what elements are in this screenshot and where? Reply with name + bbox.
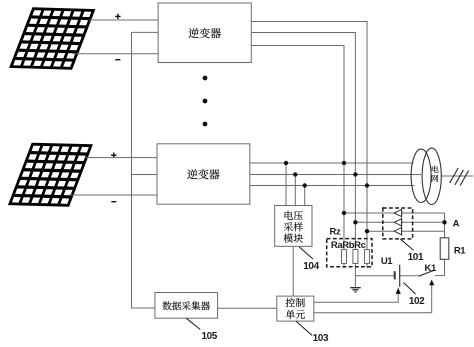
ground symbol bbox=[350, 288, 360, 292]
wire Rb bottom to ground bbox=[354, 264, 356, 288]
wire comm bus vertical to data collector bbox=[132, 32, 155, 308]
diode D2 bbox=[394, 218, 401, 227]
wire diode branch line 3 bbox=[367, 230, 445, 232]
svg-text:K1: K1 bbox=[425, 263, 437, 274]
resistor Ra bbox=[342, 250, 347, 264]
grid winding ellipse left bbox=[411, 149, 431, 202]
svg-text:A: A bbox=[453, 219, 460, 230]
inverter 2 box bbox=[157, 144, 250, 204]
wire Ra bottom stub bbox=[343, 264, 345, 269]
PV panel array 1 (top left solar panel) bbox=[9, 7, 95, 69]
leader line 105 bbox=[186, 318, 200, 329]
wire node A vertical bbox=[444, 213, 446, 238]
label - (PV1 negative) bbox=[115, 59, 120, 61]
inverter 1 box bbox=[158, 3, 251, 63]
wire sampling tap 3 bbox=[304, 186, 306, 206]
wire diode branch line 1 bbox=[344, 212, 445, 214]
junction dot tap2/busB bbox=[293, 172, 297, 176]
resistor R1 bbox=[440, 238, 449, 259]
svg-text:Rz: Rz bbox=[329, 227, 340, 238]
leader line 103 bbox=[296, 321, 312, 335]
diode D3 bbox=[394, 227, 401, 236]
voltage sampling module box 104 bbox=[275, 206, 312, 247]
data collector box 105 bbox=[155, 293, 218, 319]
leader line 104 bbox=[299, 247, 313, 259]
control unit box 103 bbox=[277, 296, 314, 321]
wire ground node to U1 bbox=[355, 275, 394, 277]
wire PV2 - to inverter 2 bbox=[69, 194, 157, 196]
arrow control to U1 bbox=[396, 288, 401, 294]
wire grid to three-phase marker bbox=[441, 175, 473, 177]
wire AC bus phase A bbox=[250, 162, 414, 164]
junction dot inv1B/busB bbox=[353, 172, 357, 176]
wire inverter 1 comm stub bbox=[132, 31, 159, 33]
wire control to K1 bbox=[314, 284, 432, 313]
svg-text:104: 104 bbox=[303, 261, 319, 272]
wire inverter 2 comm stub bbox=[132, 174, 158, 176]
resistor Rb bbox=[353, 250, 358, 264]
junction dot diode line 2 bbox=[353, 220, 357, 224]
svg-text:102: 102 bbox=[409, 296, 425, 307]
wire inverter 1 output phase A (top, bends down at right) bbox=[251, 22, 367, 250]
resistor network dashed box Rz bbox=[327, 239, 372, 267]
svg-text:RaRbRc: RaRbRc bbox=[331, 240, 366, 251]
three-phase slash 3 bbox=[460, 171, 469, 186]
leader line 101 bbox=[400, 239, 413, 250]
wire U1 to K1 left contact bbox=[400, 275, 419, 277]
svg-text:R1: R1 bbox=[454, 246, 466, 257]
leader line 102 bbox=[404, 283, 416, 295]
svg-text:105: 105 bbox=[201, 331, 217, 342]
wire sampling tap 1 bbox=[285, 163, 287, 206]
ellipsis dot 2 bbox=[203, 99, 208, 104]
ellipsis dot 3 bbox=[203, 122, 208, 127]
junction dot tap1/busA bbox=[284, 161, 288, 165]
wire inverter 1 output phase B (middle) bbox=[251, 33, 355, 250]
resistor Rc bbox=[365, 250, 370, 264]
wire sampling tap 2 bbox=[294, 175, 296, 206]
PV panel array 2 (bottom left solar panel) bbox=[8, 143, 93, 207]
wire PV1 + to inverter 1 bbox=[89, 19, 158, 21]
label + (PV1 positive) bbox=[115, 14, 120, 19]
wire Rc bottom stub bbox=[366, 264, 368, 269]
three-phase slash 2 bbox=[455, 170, 463, 185]
wire control to U1 bbox=[314, 294, 398, 303]
diode D1 bbox=[394, 209, 401, 218]
wire diode branch line 2 bbox=[355, 221, 444, 223]
wire K1 right stub bbox=[435, 275, 445, 277]
switch K1 blade bbox=[419, 271, 433, 277]
junction dot inv1A/busA bbox=[342, 161, 346, 165]
wire inverter 1 output phase C (bottom) bbox=[251, 46, 344, 250]
junction dot inv1C/busC bbox=[365, 183, 369, 187]
svg-text:101: 101 bbox=[408, 252, 424, 263]
label - (PV2 negative) bbox=[111, 201, 116, 203]
label grid 电网 bbox=[432, 165, 439, 182]
junction dot tap3/busC bbox=[303, 183, 307, 187]
junction dot diode line 1 bbox=[342, 211, 346, 215]
svg-text:103: 103 bbox=[313, 333, 329, 344]
wire data collector to control unit bbox=[218, 307, 277, 309]
wire PV1 - to inverter 1 bbox=[73, 53, 159, 55]
wire AC bus phase C bbox=[250, 185, 415, 187]
wire R1 bottom to K1 bbox=[444, 259, 446, 275]
diode group dashed box 101 bbox=[383, 208, 413, 239]
label + (PV2 positive) bbox=[111, 153, 116, 158]
ellipsis dot 1 bbox=[203, 76, 208, 81]
three-phase slash 1 bbox=[450, 168, 459, 183]
junction dot diode line 3 bbox=[365, 229, 369, 233]
wire PV2 + to inverter 2 bbox=[86, 157, 158, 159]
svg-text:U1: U1 bbox=[381, 256, 393, 267]
node A dot bbox=[442, 220, 446, 224]
arrow control to K1 bbox=[429, 280, 434, 286]
voltage source U1 plates bbox=[395, 265, 400, 287]
wire sampling module to control unit bbox=[292, 246, 294, 296]
wire AC bus phase B bbox=[250, 174, 421, 176]
grid winding ellipse right bbox=[422, 148, 441, 204]
